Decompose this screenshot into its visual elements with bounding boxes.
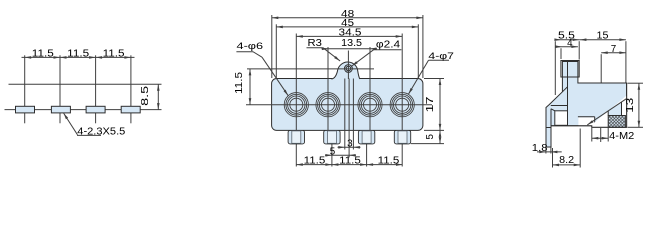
svg-text:17: 17 xyxy=(425,97,436,113)
svg-text:13: 13 xyxy=(625,97,636,113)
svg-text:8.2: 8.2 xyxy=(559,155,574,166)
svg-text:11.5: 11.5 xyxy=(103,48,126,59)
svg-text:4: 4 xyxy=(567,38,573,49)
svg-text:13.5: 13.5 xyxy=(341,38,362,49)
svg-text:φ2.4: φ2.4 xyxy=(376,40,401,51)
svg-text:4-φ6: 4-φ6 xyxy=(237,41,264,51)
svg-text:4-φ7: 4-φ7 xyxy=(428,51,454,61)
svg-text:7: 7 xyxy=(611,44,616,55)
svg-text:3: 3 xyxy=(347,138,353,149)
svg-text:11.5: 11.5 xyxy=(32,48,55,59)
svg-text:4-M2: 4-M2 xyxy=(609,131,634,142)
svg-text:5: 5 xyxy=(330,146,336,157)
svg-text:8.5: 8.5 xyxy=(140,85,151,106)
svg-text:11.5: 11.5 xyxy=(304,156,326,167)
svg-text:15: 15 xyxy=(597,31,610,42)
svg-text:11.5: 11.5 xyxy=(67,48,90,59)
svg-text:11.5: 11.5 xyxy=(378,156,400,167)
svg-text:5: 5 xyxy=(425,134,436,140)
svg-text:11.5: 11.5 xyxy=(234,71,245,94)
svg-text:4-2.3X5.5: 4-2.3X5.5 xyxy=(77,126,126,137)
svg-text:11.5: 11.5 xyxy=(339,156,361,167)
